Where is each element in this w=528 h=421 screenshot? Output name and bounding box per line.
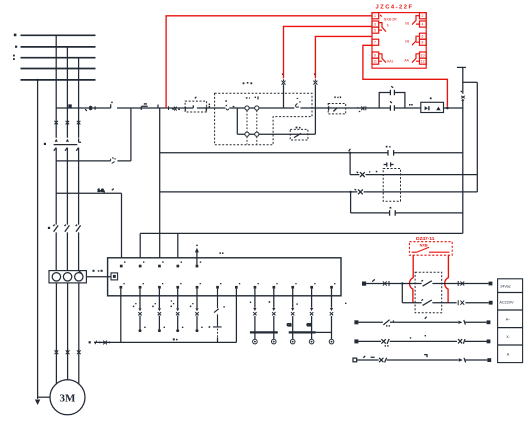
node L2 label <box>15 46 17 48</box>
wire drop C to D <box>350 192 352 213</box>
wire line B y174.6 <box>350 174 477 176</box>
svg-text:AC220V: AC220V <box>499 300 514 304</box>
contactor KM moving contact B <box>66 139 69 142</box>
svg-text:u: u <box>69 103 72 108</box>
node specks line B <box>369 171 377 173</box>
wire phase A drop <box>55 35 57 270</box>
contactor aux KM label <box>296 127 301 129</box>
connector X after KA <box>357 106 366 110</box>
linkage bar columns 8-9 <box>250 331 278 333</box>
row3 left terminal <box>354 320 358 324</box>
contact bars on line D <box>390 210 396 216</box>
fuse FU1 contact <box>185 105 206 111</box>
relay module pin 4 <box>420 21 427 27</box>
row5 ticks <box>363 356 374 358</box>
push button SB2 circle bottom left <box>245 132 249 136</box>
breaker DZ47 wire left with clip <box>409 255 413 303</box>
contactor KM linkage bar <box>54 144 78 146</box>
relay module pin 6 <box>420 33 427 39</box>
wire control vertical to PLC <box>159 108 161 258</box>
connector X row1 right <box>458 281 464 286</box>
wire drop A to B <box>349 153 351 175</box>
svg-text:7: 7 <box>374 41 376 45</box>
row3 right terminal <box>487 320 491 324</box>
wire PE to motor <box>38 396 51 398</box>
disconnect QS2 label <box>48 227 50 229</box>
relay module pin numbers <box>373 14 424 63</box>
svg-text:24Vac: 24Vac <box>500 284 511 288</box>
svg-text:12: 12 <box>421 60 425 64</box>
terminal description table <box>498 279 523 363</box>
relay module inner tick <box>380 15 381 17</box>
contact bars on line A <box>388 150 394 156</box>
relay module pin 5 <box>372 27 379 33</box>
row5 mid label <box>424 355 427 358</box>
relay KA coil dashed box <box>383 169 400 202</box>
wire phase C drop <box>78 58 80 271</box>
connector X on line B <box>357 172 365 177</box>
aux contact row2 <box>421 299 431 305</box>
junction PE bus <box>36 79 38 81</box>
thermal relay FR heater A <box>52 273 60 281</box>
PLC input terminal FR square <box>111 273 118 280</box>
node L2 bus <box>21 46 96 48</box>
limit switch column 6 <box>213 289 222 327</box>
wire PE drop <box>37 80 39 399</box>
wire line A y152.8 <box>160 152 463 154</box>
row3 arrow <box>458 321 462 324</box>
button box dashed outline <box>215 93 312 145</box>
wire motor lead C <box>78 283 80 385</box>
relay module pin 10 <box>420 52 427 58</box>
svg-text:DZ47-11: DZ47-11 <box>416 236 435 242</box>
junction red feed <box>446 107 449 110</box>
node label near arrow <box>219 252 223 254</box>
svg-text:AA: AA <box>404 58 409 62</box>
wire phase B drop <box>66 47 68 271</box>
node marker X1 <box>141 106 147 110</box>
wire second row y134.2 <box>249 133 315 135</box>
node L3 bus <box>21 57 96 59</box>
contactor KM moving contact A <box>55 139 58 142</box>
svg-text:11: 11 <box>373 60 377 64</box>
output column SB6 <box>177 289 179 330</box>
wire black below connector right <box>314 85 316 135</box>
contactor KM label dot <box>44 143 46 145</box>
bus right 2 top link <box>463 81 478 83</box>
start button contact on main line <box>295 98 299 107</box>
thermal relay FR box <box>49 271 86 283</box>
contactor KM moving contact C <box>79 138 81 142</box>
connector X red drop right <box>313 79 317 84</box>
node tick x157 <box>157 105 159 108</box>
node tick above junction A <box>349 149 351 152</box>
relay module pin 3 <box>372 21 379 27</box>
relay contact KA entry tick <box>328 106 330 110</box>
rectifier box with triangles <box>421 102 444 112</box>
row1 tick <box>372 279 375 281</box>
wire red pin5 feed <box>315 36 372 78</box>
row4 right terminal <box>487 340 491 344</box>
wire line D y212.9 <box>351 212 463 214</box>
connector X on main line <box>169 106 177 110</box>
svg-text:3M: 3M <box>60 393 77 405</box>
rail label <box>173 338 178 340</box>
wire line E y233.4 <box>140 232 463 234</box>
svg-text:NXB-2R: NXB-2R <box>384 18 398 22</box>
relay module pin 2 <box>420 13 427 19</box>
wire line C y191.9 <box>160 191 478 193</box>
fuse FU1 label <box>195 97 197 99</box>
PLC terminal box <box>108 258 341 296</box>
relay KA symbol above box <box>384 162 394 166</box>
connector X red drop left <box>282 79 286 84</box>
disconnect QS2 contact B <box>64 225 69 232</box>
wire SB branch drop <box>237 108 245 134</box>
row5 left terminal <box>353 358 357 362</box>
connector X motor lead C <box>77 349 81 354</box>
thermal relay FR heater C <box>75 273 83 281</box>
parallel RC branch rails <box>379 93 405 109</box>
thermal relay FR label <box>93 270 103 272</box>
wire arrow terminal t5 <box>196 252 198 265</box>
disconnect QS2 contact C <box>76 225 81 232</box>
node PE bus <box>21 79 96 81</box>
push button SB2 linkage dashes <box>246 110 248 144</box>
contact row5 <box>379 358 387 363</box>
fuse FU phase A <box>54 121 58 125</box>
motor 3M circle <box>50 380 85 415</box>
wire row4 <box>358 340 486 342</box>
relay module pin 7 <box>372 39 379 45</box>
relay module pin 8 <box>420 39 427 45</box>
relay module pin 1 <box>372 13 379 19</box>
relay module KA red body <box>372 13 426 69</box>
svg-text:KA1: KA1 <box>387 59 394 63</box>
connector column 8 <box>254 289 256 340</box>
svg-text:10: 10 <box>421 53 425 57</box>
branch left y160.9 <box>56 108 131 161</box>
contact bars main branch <box>390 101 394 110</box>
svg-text:JZC4-22F: JZC4-22F <box>376 5 413 11</box>
breaker DZ47 contact <box>412 247 450 252</box>
wire FR to terminal <box>86 276 111 278</box>
node N bus <box>21 68 96 70</box>
relay module pin 11 <box>372 58 379 64</box>
connector labels <box>282 73 316 75</box>
wire row1 drop to row2 <box>401 284 403 303</box>
svg-text:NXB: NXB <box>420 243 428 247</box>
svg-text:8: 8 <box>422 41 424 45</box>
relay module contact left bottom <box>379 54 386 63</box>
contact on bus right 1 <box>461 96 465 99</box>
contact on branch y160.9 <box>111 159 115 164</box>
wire red pin3 feed <box>284 26 373 78</box>
bus right 2 vertical <box>476 82 478 192</box>
row5 arrow <box>459 358 463 361</box>
svg-text:C3: C3 <box>307 323 311 327</box>
relay module contact labels <box>387 21 410 63</box>
button box label <box>243 82 253 84</box>
row2 right terminal <box>489 301 493 305</box>
relay module contact right mid <box>412 36 420 45</box>
PLC bottom terminals <box>120 283 336 289</box>
fuse FU phase C <box>77 121 81 125</box>
svg-text:5: 5 <box>374 29 376 33</box>
relay contact KA dashed box on main line <box>328 104 346 114</box>
aux dashed box rows 1-2 <box>415 272 442 313</box>
contactor aux KM dashed box on row2 <box>290 129 308 140</box>
svg-text:A: A <box>507 353 510 357</box>
row3 mid tick <box>425 317 427 319</box>
wire row5 <box>357 359 488 361</box>
wire PLC col1 to rail <box>120 289 122 343</box>
wire row3 <box>358 321 486 323</box>
output column SB5 <box>158 289 160 330</box>
push button labels <box>246 96 259 99</box>
relay contact KA label <box>334 96 341 98</box>
contactor aux KM contact <box>294 133 301 137</box>
wire red pin7 feed <box>363 45 448 107</box>
junction row1 drop <box>401 282 403 284</box>
connector column 10 <box>292 289 294 340</box>
node L1 bus <box>21 34 96 36</box>
thermal relay FR heater C slant <box>79 271 82 274</box>
wire red pin1 feed <box>166 16 372 108</box>
breaker DZ47 dashed box <box>409 242 452 256</box>
switch QS1 on main line <box>85 104 111 111</box>
row1 right terminal <box>489 282 493 286</box>
bus right 1 vertical <box>462 67 464 233</box>
disconnect QS2 contact A <box>53 225 58 232</box>
aux contact row1 <box>421 280 431 286</box>
svg-text:9: 9 <box>374 53 376 57</box>
row5 right terminal <box>487 358 491 362</box>
svg-text:1: 1 <box>374 14 376 18</box>
connector column 11 <box>311 289 313 340</box>
svg-text:b8: b8 <box>405 39 409 43</box>
fuse FU phase B <box>66 121 70 125</box>
wire E drop to PLC t2 <box>139 233 141 257</box>
stop button SB1 label <box>225 100 234 107</box>
thermal relay FR heater B <box>63 273 71 281</box>
contact row3 <box>383 320 389 325</box>
wire bar to column 12 <box>316 331 332 333</box>
connector X row1 left <box>383 281 389 286</box>
relay contact KA slant <box>333 108 337 112</box>
row1 left terminal <box>362 282 366 286</box>
node dots before box <box>409 104 413 106</box>
connector X row2 right <box>458 300 464 305</box>
breaker DZ47 wire right with clip <box>445 255 449 303</box>
contact bars top branch <box>390 86 394 95</box>
svg-text:A~: A~ <box>506 317 512 321</box>
wire motor lead B <box>67 283 69 380</box>
svg-text:3: 3 <box>374 22 376 26</box>
connector X motor lead A <box>55 349 59 354</box>
connector X row4 right <box>458 339 465 344</box>
contact label line A <box>386 146 391 148</box>
relay module contact left mid <box>379 23 386 32</box>
junction line C drop <box>349 191 351 193</box>
output column labels <box>133 300 203 328</box>
svg-text:b6: b6 <box>405 21 409 25</box>
wire black below connector left <box>283 84 285 108</box>
svg-text:b: b <box>387 24 389 28</box>
svg-text:2: 2 <box>422 14 424 18</box>
node L1 label <box>14 34 17 37</box>
wire PLC col7 to rail corner <box>235 289 237 343</box>
relay module pin 12 <box>420 58 427 64</box>
push button SB3 circle top right <box>255 106 259 110</box>
rail left end connector <box>95 341 107 345</box>
PLC top terminals <box>120 261 201 267</box>
push button SB3 circle bottom right <box>255 132 259 136</box>
connector X motor lead B <box>66 349 70 354</box>
svg-text:X.: X. <box>506 335 510 339</box>
connector column 12 <box>331 289 333 340</box>
relay module contact right bottom <box>412 54 420 63</box>
svg-text:6: 6 <box>422 35 424 39</box>
bus right 1 top bar <box>457 66 466 68</box>
row4 left terminal <box>354 339 358 343</box>
relay module contact right top <box>412 16 420 25</box>
svg-text:C2: C2 <box>287 323 291 327</box>
svg-text:4: 4 <box>422 22 424 26</box>
contact row4 <box>381 339 389 344</box>
node dots after FU1 <box>209 104 211 108</box>
push button SB3 linkage dashes <box>256 110 258 144</box>
contact label line D <box>390 207 392 209</box>
wire row2 <box>402 302 489 304</box>
stop button SB1 contact <box>226 105 229 110</box>
output column SB7 <box>196 289 198 330</box>
wire E drop to PLC t4 <box>177 233 179 257</box>
connector X on line C <box>355 189 363 194</box>
relay module pin 9 <box>372 52 379 58</box>
wire row1 <box>366 283 488 285</box>
wire motor lead A <box>55 283 57 385</box>
linkage bar columns 10-11 <box>289 331 316 333</box>
branch left y193.3 FR line <box>56 193 121 257</box>
node L3 label <box>13 55 15 60</box>
output column SB4 <box>139 289 141 330</box>
svg-text:1-2: 1-2 <box>98 188 105 193</box>
connector column 9 <box>273 289 275 340</box>
FR contact marks on y193.3 <box>104 189 114 194</box>
wire main control line y108 <box>56 107 463 109</box>
ground arrow PE <box>35 400 40 406</box>
push button SB2 circle top left <box>245 106 249 110</box>
bottom rail <box>94 341 236 343</box>
fuse FU1 dashed box <box>185 101 207 112</box>
junction line A drop <box>349 152 351 154</box>
